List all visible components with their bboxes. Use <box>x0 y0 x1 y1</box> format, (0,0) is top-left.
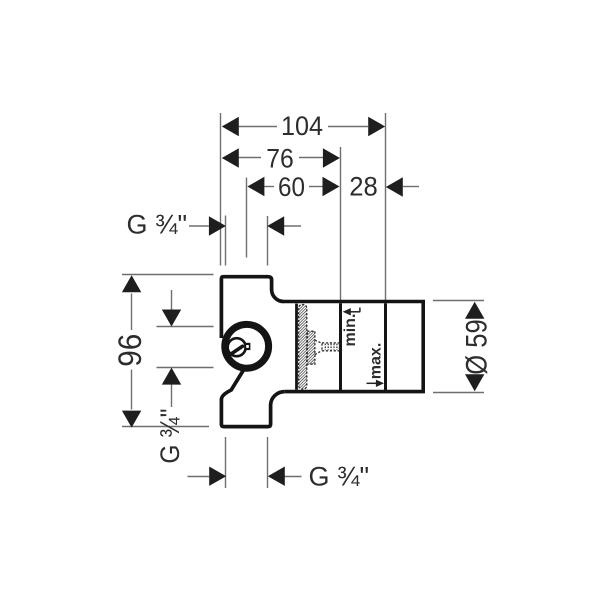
svg-text:max.: max. <box>368 343 385 379</box>
svg-text:76: 76 <box>266 144 294 174</box>
svg-text:104: 104 <box>281 111 323 141</box>
svg-text:min.: min. <box>342 314 359 347</box>
svg-text:60: 60 <box>278 172 305 202</box>
svg-text:G ¾": G ¾" <box>155 409 185 464</box>
svg-text:G ¾": G ¾" <box>309 462 370 492</box>
svg-text:G ¾": G ¾" <box>127 209 188 239</box>
svg-text:96: 96 <box>112 334 148 367</box>
svg-text:Ø 59: Ø 59 <box>461 319 494 375</box>
svg-text:28: 28 <box>349 171 378 201</box>
